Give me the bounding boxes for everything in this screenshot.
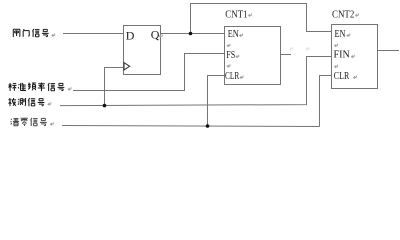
wire: CNT1 output stub bbox=[281, 54, 292, 56]
svg-text:Q: Q bbox=[151, 28, 160, 42]
svg-text:CNT2: CNT2 bbox=[332, 9, 354, 20]
label 标准频率信号 (standard frequency signal) bbox=[8, 82, 64, 91]
lone return mark inside CNT2 bbox=[335, 65, 338, 68]
svg-text:D: D bbox=[126, 29, 135, 43]
return mark after Q bbox=[159, 34, 162, 37]
wire: clock feed from measured-signal line up to clock pin bbox=[105, 68, 125, 106]
return mark after 被测信号 bbox=[48, 102, 51, 105]
wire: clear signal line bbox=[62, 126, 320, 127]
label 闸门信号 (gate signal) bbox=[13, 29, 48, 37]
return mark after 闸门信号 bbox=[52, 33, 55, 36]
lone return mark inside CNT1 bbox=[227, 64, 230, 67]
D flip-flop U1 box bbox=[124, 26, 161, 75]
wire: branch from node up over to CNT2 EN bbox=[191, 4, 332, 34]
faint ghost marks between blocks bbox=[290, 47, 309, 50]
clock edge triangle on flip-flop bbox=[124, 63, 130, 70]
wire: clear to CNT1 CLR bbox=[208, 76, 225, 127]
CNT2 box bbox=[332, 25, 378, 89]
svg-text:EN: EN bbox=[228, 29, 239, 40]
wire: CNT2 output stub bbox=[378, 50, 400, 52]
svg-text:CLR: CLR bbox=[334, 71, 350, 82]
wire: standard frequency line to CNT1 FS bbox=[73, 54, 225, 91]
svg-text:CLR: CLR bbox=[225, 71, 239, 82]
wire: measured signal line to CNT2 FIN bbox=[60, 57, 332, 106]
junction node: Q branch bbox=[189, 32, 193, 36]
return mark after 清零信号 bbox=[50, 122, 53, 125]
label 清零信号 (clear signal) bbox=[11, 118, 47, 126]
return mark after 标准频率信号 bbox=[68, 87, 71, 90]
svg-text:EN: EN bbox=[335, 29, 346, 40]
junction node: measured line / clock tap bbox=[103, 104, 107, 108]
wire: Q output to CNT1 EN bbox=[161, 33, 225, 35]
label 被测信号 (measured signal) bbox=[8, 98, 44, 106]
wire: clear to CNT2 CLR bbox=[320, 76, 332, 127]
lone return mark inside CNT2 bbox=[335, 44, 338, 47]
wire: gate signal to D input bbox=[63, 33, 124, 35]
svg-text:CNT1: CNT1 bbox=[225, 9, 247, 20]
svg-text:FIN: FIN bbox=[334, 50, 351, 61]
svg-text:FS: FS bbox=[226, 50, 235, 61]
CNT1 box bbox=[225, 27, 281, 85]
lone return mark inside CNT1 bbox=[227, 44, 230, 47]
junction node: clear line / CNT1 CLR tap bbox=[206, 124, 210, 128]
